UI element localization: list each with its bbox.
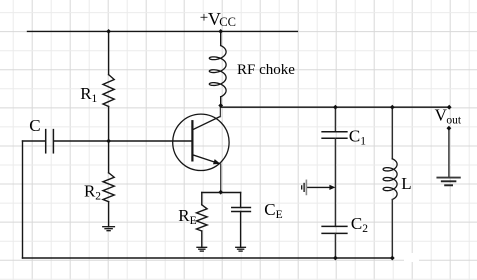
svg-text:2: 2 [95,191,101,203]
svg-text:E: E [190,215,197,227]
svg-text:2: 2 [362,223,368,235]
svg-text:C: C [351,214,362,233]
svg-text:C: C [29,116,40,135]
svg-text:R: R [80,84,92,103]
svg-text:C: C [264,200,275,219]
svg-text:L: L [401,174,411,193]
svg-text:1: 1 [360,135,366,147]
svg-text:C: C [349,126,360,145]
svg-text:1: 1 [92,93,98,105]
svg-text:R: R [84,182,96,201]
svg-text:RF choke: RF choke [237,62,295,78]
svg-text:CC: CC [219,15,236,29]
svg-text:R: R [178,206,190,225]
svg-text:E: E [276,209,283,221]
svg-text:out: out [446,115,462,127]
